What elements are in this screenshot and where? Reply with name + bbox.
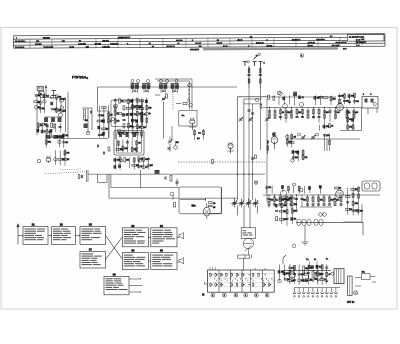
bus part y158 — [251, 158, 254, 159]
parts table band — [13, 34, 385, 53]
af row2 hanging parts — [268, 195, 270, 208]
svg-text:Tr₁: Tr₁ — [306, 258, 309, 261]
switch feed box — [238, 255, 250, 258]
svg-text:89 1 2T: 89 1 2T — [195, 43, 201, 45]
power tube 2 — [302, 273, 309, 280]
B81 box — [362, 274, 371, 280]
wire mid contacts — [296, 222, 363, 235]
svg-text:92k: 92k — [283, 211, 286, 213]
Ms shield box — [179, 187, 221, 214]
wire below drive — [245, 255, 252, 259]
parts above Ms area — [194, 131, 196, 135]
svg-text:M22: M22 — [48, 142, 51, 144]
dashed shield vertical — [172, 90, 174, 110]
circled ref top right of box — [277, 91, 281, 95]
svg-text:4: 4 — [245, 295, 246, 297]
antenna sub box — [39, 91, 44, 95]
svg-text:4: 4 — [16, 38, 17, 40]
block chain wires — [18, 235, 80, 237]
svg-text:57: 57 — [79, 41, 81, 43]
svg-text:019: 019 — [287, 200, 290, 202]
svg-text:2: 2 — [224, 295, 225, 297]
svg-text:B₆: B₆ — [326, 259, 328, 261]
terminal T3 — [259, 62, 263, 67]
antenna lead chokes — [249, 66, 260, 88]
power small parts — [355, 277, 376, 287]
ratio det transistor — [190, 119, 195, 124]
bus wires — [249, 88, 267, 202]
motor tube — [204, 207, 211, 216]
svg-text:Ms: Ms — [192, 203, 196, 207]
svg-text:7R 18K 049 7: 7R 18K 049 7 — [356, 42, 366, 44]
coil on wire 174 — [155, 170, 159, 174]
block B6 — [151, 253, 177, 270]
svg-text:1p9: 1p9 — [197, 138, 200, 140]
block B7 — [80, 252, 106, 269]
svg-text:0 RK 4T0 2: 0 RK 4T0 2 — [316, 39, 325, 41]
trimmer in shield — [162, 98, 165, 99]
long wire y187 — [111, 174, 180, 187]
svg-text:8k2: 8k2 — [126, 160, 129, 162]
svg-text:398: 398 — [85, 120, 88, 122]
svg-text:PROJEKT: PROJEKT — [190, 49, 200, 51]
svg-text:p65: p65 — [355, 112, 358, 114]
discriminator parts — [169, 141, 172, 142]
mains transformer — [334, 269, 344, 284]
power rail — [282, 269, 331, 271]
svg-text:5A 1 RRK: 5A 1 RRK — [332, 44, 340, 47]
svg-text:87k: 87k — [295, 152, 298, 154]
svg-text:1A T1 K0: 1A T1 K0 — [308, 41, 315, 44]
block input arrow — [17, 224, 19, 244]
row2 under circles — [319, 213, 323, 217]
svg-text:P5F93A₀: P5F93A₀ — [72, 75, 88, 80]
AM tuner box — [238, 97, 268, 200]
ground sym — [302, 242, 309, 245]
row2 enclosure corner — [344, 204, 363, 222]
IF main wire — [97, 86, 237, 88]
svg-text:p61: p61 — [336, 200, 339, 202]
terminal T2 — [253, 62, 257, 67]
right parts under row1 — [347, 109, 349, 130]
svg-text:0k7: 0k7 — [110, 115, 113, 117]
output transformer box — [362, 97, 378, 109]
svg-text:950: 950 — [67, 153, 70, 155]
wire below speaker box — [340, 108, 377, 131]
parts below wire 174 — [165, 177, 166, 180]
svg-text:451 50: 451 50 — [237, 40, 242, 42]
IF can 3 — [159, 83, 168, 85]
svg-text:B 646 748: B 646 748 — [110, 43, 118, 45]
svg-text:k6p: k6p — [38, 95, 41, 97]
block B8 — [104, 276, 129, 294]
block B4 — [151, 228, 177, 247]
svg-text:45p: 45p — [62, 159, 65, 161]
switch contacts mid — [297, 219, 301, 225]
voltage selector comb — [295, 288, 336, 293]
svg-text:k83: k83 — [298, 112, 301, 114]
ratio det box — [179, 111, 197, 126]
bus link — [244, 103, 262, 105]
pilot lamp — [354, 291, 358, 295]
svg-text:T0 42 938 K: T0 42 938 K — [15, 47, 25, 49]
mid wire y139 — [286, 138, 360, 140]
af row1 top parts — [279, 92, 283, 96]
block B8 outputs — [129, 278, 143, 293]
dial drive box — [241, 228, 255, 239]
svg-text:1: 1 — [212, 295, 213, 297]
vert from osc parts — [140, 170, 142, 188]
left drop wires — [64, 149, 66, 160]
circled ref mid — [170, 192, 174, 196]
svg-text:3: 3 — [267, 39, 268, 41]
FM antenna box — [37, 86, 43, 90]
gang trimmer 2 — [249, 119, 252, 120]
FM tuner cluster — [35, 95, 38, 96]
svg-text:.91: .91 — [331, 125, 333, 127]
svg-text:470 17A: 470 17A — [102, 39, 109, 42]
osc cluster below tuner — [45, 133, 47, 147]
osc parts left — [37, 159, 41, 163]
svg-text:4a₁: 4a₁ — [182, 115, 185, 117]
IF can 2 — [142, 83, 151, 85]
transistor q mid — [228, 143, 233, 148]
svg-text:M.8: M.8 — [54, 109, 57, 111]
svg-text:M86: M86 — [125, 148, 128, 150]
svg-text:P07 34: P07 34 — [347, 302, 355, 304]
af row1 main wire — [263, 107, 362, 109]
if can feed cluster — [131, 98, 133, 127]
svg-text:6T7 160: 6T7 160 — [95, 43, 101, 45]
svg-text:A 7: A 7 — [250, 35, 253, 38]
ref circle on shield top — [188, 83, 192, 87]
block B5 — [122, 253, 148, 270]
agc dashed line — [178, 161, 266, 163]
svg-text:3: 3 — [235, 295, 236, 297]
svg-text:.61: .61 — [282, 112, 284, 114]
svg-text:GEMEPLER 9 T: GEMEPLER 9 T — [118, 37, 130, 39]
svg-text:1/8: 1/8 — [213, 203, 215, 205]
switch contacts — [210, 273, 212, 276]
IF can 1 — [131, 83, 140, 85]
gang trimmer 1 — [239, 119, 242, 120]
svg-text:.62: .62 — [339, 188, 341, 190]
af row1 top rail — [267, 96, 336, 98]
gang drop wires — [238, 206, 258, 228]
switch dotted rows — [209, 273, 274, 275]
svg-text:5: 5 — [256, 295, 257, 297]
svg-text:4 8: 4 8 — [330, 36, 332, 38]
svg-text:401 K16: 401 K16 — [176, 40, 182, 42]
af tube V2 — [336, 190, 344, 198]
volume trimmers — [302, 137, 305, 138]
gang trimmer 3 — [266, 119, 269, 120]
FM tuner mid parts — [47, 125, 48, 128]
svg-text:658: 658 — [270, 200, 273, 202]
svg-text:A30 559: A30 559 — [35, 43, 41, 46]
svg-text:462: 462 — [65, 142, 68, 144]
switch unit frame — [208, 270, 275, 292]
rectifier cluster — [284, 273, 287, 274]
bus small caps — [248, 110, 251, 111]
svg-text:A 3 42: A 3 42 — [223, 45, 228, 48]
svg-text:GERATE: GERATE — [43, 36, 51, 39]
svg-text:0T0 T5: 0T0 T5 — [217, 43, 222, 45]
svg-text:B 52 1 85: B 52 1 85 — [256, 43, 263, 45]
shield dashdot drop — [188, 85, 190, 100]
osc parts below box — [114, 158, 116, 170]
af row1 under parts — [319, 125, 321, 131]
svg-text:Mp9: Mp9 — [101, 115, 104, 117]
mixer cluster — [114, 98, 116, 139]
block B3 — [122, 228, 148, 247]
motor side parts — [209, 202, 213, 204]
wire to IF strip — [40, 87, 109, 138]
switch left hook — [205, 282, 208, 284]
svg-text:.0p: .0p — [148, 113, 150, 115]
callout ref 6 — [300, 54, 304, 58]
fm det transistor — [271, 137, 278, 144]
svg-text:1/8: 1/8 — [213, 207, 215, 209]
osc coil box — [114, 131, 144, 156]
FM tuner coils — [45, 118, 48, 123]
svg-text:313: 313 — [281, 200, 284, 202]
speaker icon 1 — [179, 233, 184, 240]
antenna arrow — [254, 55, 258, 60]
svg-text:8p5: 8p5 — [63, 99, 66, 101]
mixer box — [111, 100, 143, 127]
svg-text:21k: 21k — [106, 129, 109, 131]
dipole stub — [52, 91, 57, 96]
power tube 1 — [289, 272, 295, 278]
svg-text:.38: .38 — [301, 97, 303, 99]
svg-text:032: 032 — [143, 127, 146, 129]
af row2 top parts — [266, 185, 268, 193]
power tube 3 — [315, 274, 322, 281]
svg-text:3: 3 — [127, 43, 128, 45]
svg-text:67: 67 — [177, 43, 179, 45]
output transformer 2 — [362, 181, 380, 191]
svg-text:T3 6A 3A KK: T3 6A 3A KK — [43, 46, 53, 49]
circled ref 58 — [272, 132, 276, 136]
terminal T1 — [243, 62, 247, 67]
wire tuner feeds — [39, 91, 42, 96]
svg-text:.k7: .k7 — [328, 274, 330, 276]
svg-text:T 14: T 14 — [356, 45, 359, 47]
left small parts at double vert — [87, 170, 89, 182]
long wire y198 — [109, 174, 237, 198]
svg-text:743: 743 — [268, 187, 271, 189]
af row2 wire — [263, 195, 380, 207]
IF shield box — [155, 79, 192, 110]
af transistors row1 — [283, 104, 288, 109]
fuse — [348, 276, 353, 296]
speaker icon 2 — [179, 258, 184, 265]
IF can 4 — [171, 83, 180, 85]
svg-text:AK 0A2 73: AK 0A2 73 — [167, 45, 175, 48]
af row1 hanging parts — [269, 108, 271, 119]
svg-text:243: 243 — [65, 135, 68, 137]
circled plus mid bus — [254, 181, 258, 185]
block B1 — [23, 227, 48, 245]
box exit wire — [210, 187, 221, 214]
gang cap row — [234, 199, 236, 208]
svg-text:8R 32K 7A9 1: 8R 32K 7A9 1 — [15, 40, 26, 43]
svg-text:MM7: MM7 — [294, 211, 298, 213]
switch top ticks — [210, 267, 265, 270]
motor wire rail — [180, 198, 206, 201]
svg-text:M: M — [202, 294, 204, 297]
antenna feed arrow — [45, 85, 47, 95]
wire loop below — [98, 174, 108, 182]
svg-text:3: 3 — [248, 46, 249, 48]
svg-text:.p6: .p6 — [145, 167, 147, 169]
switch position numbers — [211, 293, 215, 297]
svg-text:7M7: 7M7 — [150, 165, 153, 167]
long wire y174 — [88, 173, 265, 175]
svg-text:S₁: S₁ — [314, 259, 316, 261]
tuner out cluster — [84, 110, 86, 115]
svg-text:749: 749 — [356, 101, 359, 103]
small part in shield — [183, 103, 187, 105]
svg-text:100: 100 — [62, 41, 65, 43]
parts right of bus — [267, 141, 268, 144]
drop to ground — [304, 226, 306, 243]
svg-text:4k5: 4k5 — [293, 136, 296, 138]
svg-text:190: 190 — [360, 210, 363, 212]
svg-text:M61: M61 — [333, 98, 336, 100]
block B2 — [52, 227, 76, 245]
svg-text:171: 171 — [199, 46, 202, 48]
svg-text:017: 017 — [138, 143, 141, 145]
svg-text:39 32: 39 32 — [70, 47, 74, 49]
svg-text:064: 064 — [337, 112, 340, 114]
svg-text:031: 031 — [320, 200, 323, 202]
if amp cluster — [98, 106, 100, 138]
svg-text:RK T31: RK T31 — [267, 45, 273, 47]
row2 right parts — [347, 187, 349, 214]
FM tuner bottom coil row — [46, 135, 50, 139]
svg-text:3T: 3T — [149, 43, 151, 45]
switch dividers — [219, 270, 263, 292]
svg-text:kM8: kM8 — [148, 107, 151, 109]
svg-text:R9: R9 — [152, 46, 154, 48]
svg-text:393: 393 — [355, 189, 358, 191]
pilot parts right of switch — [279, 264, 281, 281]
svg-text:6: 6 — [266, 295, 267, 297]
svg-text:R 6A 7A5: R 6A 7A5 — [102, 45, 109, 48]
mech dial dotted line — [45, 172, 88, 174]
mid right parts — [324, 134, 326, 151]
svg-text:589: 589 — [176, 142, 179, 144]
svg-text:k3p: k3p — [42, 108, 45, 110]
svg-text:791: 791 — [67, 159, 70, 161]
svg-text:22k: 22k — [303, 200, 306, 202]
svg-text:258: 258 — [326, 112, 329, 114]
svg-text:A 4 R 3B3: A 4 R 3B3 — [78, 42, 86, 45]
svg-text:90 111 14T B5: 90 111 14T B5 — [336, 42, 347, 44]
svg-text:2A 378 B 6: 2A 378 B 6 — [292, 38, 300, 41]
dial drive wheel — [243, 238, 253, 248]
svg-text:B8₁: B8₁ — [362, 272, 365, 274]
block B3 — [80, 227, 106, 245]
parts on left verticals — [97, 145, 98, 148]
ref circle shield — [189, 103, 193, 107]
svg-text:5: 5 — [363, 94, 364, 96]
right mid parts column — [275, 204, 277, 207]
svg-text:161: 161 — [139, 106, 142, 108]
drop below shield — [171, 126, 173, 140]
svg-text:6: 6 — [301, 55, 302, 57]
box feed cap — [176, 179, 178, 187]
svg-text:TT0 89: TT0 89 — [307, 45, 312, 47]
svg-text:17k: 17k — [305, 157, 308, 159]
parts table code box — [347, 35, 384, 42]
block cross wires — [106, 236, 151, 262]
mid parts chain — [286, 134, 288, 147]
wire tuner verticals — [37, 92, 68, 138]
